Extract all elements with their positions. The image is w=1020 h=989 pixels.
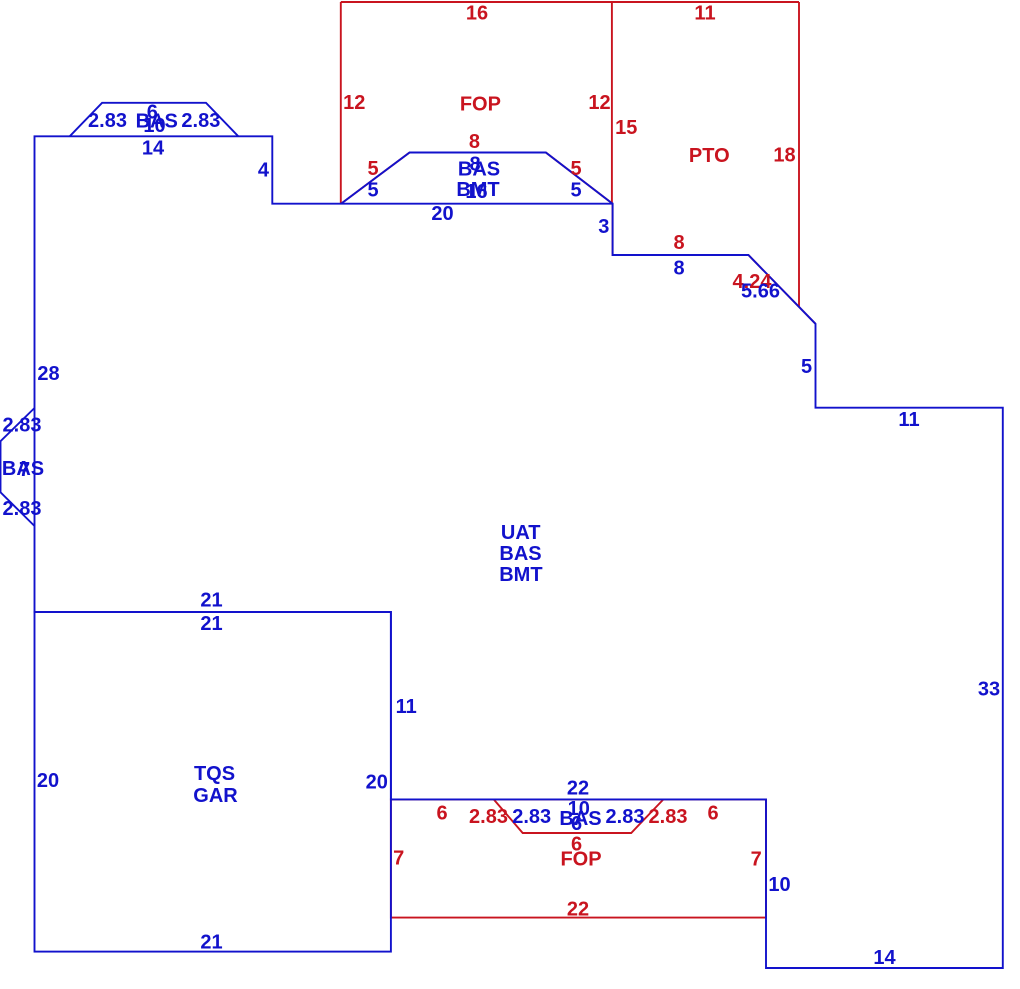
svg-text:BAS: BAS — [458, 159, 500, 181]
svg-text:12: 12 — [343, 92, 365, 114]
svg-text:BMT: BMT — [499, 564, 542, 586]
svg-text:FOP: FOP — [460, 94, 501, 116]
svg-text:6: 6 — [571, 813, 582, 835]
svg-text:2.83: 2.83 — [3, 498, 42, 520]
svg-text:22: 22 — [567, 899, 589, 921]
svg-text:2.83: 2.83 — [606, 806, 645, 828]
svg-text:21: 21 — [200, 613, 222, 635]
svg-text:18: 18 — [773, 145, 795, 167]
svg-text:5.66: 5.66 — [741, 281, 780, 303]
svg-text:4: 4 — [258, 159, 270, 181]
svg-text:10: 10 — [768, 874, 790, 896]
svg-text:20: 20 — [37, 770, 59, 792]
svg-text:5: 5 — [801, 356, 812, 378]
svg-text:10: 10 — [143, 115, 165, 137]
svg-text:7: 7 — [393, 848, 404, 870]
svg-text:7: 7 — [19, 459, 30, 481]
svg-text:14: 14 — [873, 947, 896, 969]
svg-text:2.83: 2.83 — [88, 110, 127, 132]
svg-text:15: 15 — [615, 117, 637, 139]
svg-text:2.83: 2.83 — [512, 806, 551, 828]
svg-text:20: 20 — [431, 203, 453, 225]
svg-text:14: 14 — [142, 138, 165, 160]
svg-text:22: 22 — [567, 777, 589, 799]
svg-text:BAS: BAS — [499, 543, 541, 565]
svg-text:11: 11 — [898, 409, 919, 431]
svg-text:5: 5 — [570, 158, 581, 180]
svg-text:GAR: GAR — [193, 785, 238, 807]
svg-text:2.83: 2.83 — [3, 414, 42, 436]
svg-text:16: 16 — [465, 181, 487, 203]
svg-text:7: 7 — [751, 848, 762, 870]
svg-text:21: 21 — [200, 932, 222, 954]
svg-text:2.83: 2.83 — [181, 110, 220, 132]
svg-text:UAT: UAT — [501, 522, 541, 544]
svg-text:8: 8 — [469, 131, 480, 153]
svg-text:11: 11 — [396, 696, 417, 718]
svg-text:6: 6 — [707, 803, 718, 825]
svg-text:12: 12 — [588, 92, 610, 114]
svg-text:3: 3 — [598, 216, 609, 238]
svg-text:20: 20 — [366, 772, 388, 794]
svg-text:PTO: PTO — [689, 145, 730, 167]
svg-text:5: 5 — [367, 180, 378, 202]
svg-text:TQS: TQS — [194, 763, 235, 785]
svg-text:FOP: FOP — [560, 849, 601, 871]
svg-text:2.83: 2.83 — [649, 806, 688, 828]
svg-text:11: 11 — [694, 3, 715, 25]
svg-text:33: 33 — [978, 679, 1000, 701]
svg-text:2.83: 2.83 — [469, 806, 508, 828]
svg-text:5: 5 — [367, 158, 378, 180]
svg-text:16: 16 — [466, 2, 488, 24]
svg-text:8: 8 — [673, 232, 684, 254]
svg-text:8: 8 — [673, 258, 684, 280]
svg-text:21: 21 — [200, 590, 222, 612]
svg-text:6: 6 — [436, 803, 447, 825]
svg-text:28: 28 — [37, 363, 59, 385]
svg-text:5: 5 — [570, 180, 581, 202]
